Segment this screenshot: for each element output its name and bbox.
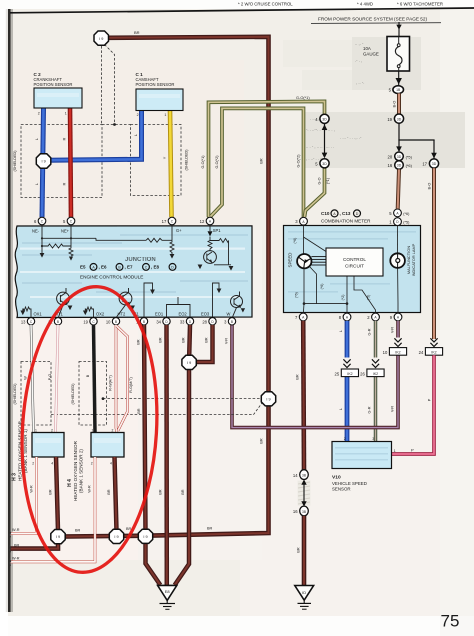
- junction wiring below 19: [398, 123, 400, 151]
- wire BR from EO3 into I9 octagon: [195, 325, 213, 362]
- svg-text:17: 17: [162, 219, 167, 224]
- ECM internal labels top: [32, 228, 221, 234]
- svg-text:75: 75: [441, 612, 460, 631]
- wire P-G from HT1 to H3: [56, 325, 59, 433]
- svg-text:BR: BR: [159, 489, 163, 494]
- ECM internal OX2: [85, 307, 93, 317]
- svg-text:G-O(*2): G-O(*2): [215, 156, 219, 169]
- connector pair link 4-5: [324, 124, 326, 155]
- ground E8 (engine ground): [158, 585, 177, 600]
- svg-text:2: 2: [344, 437, 346, 441]
- svg-text:28: 28: [202, 319, 207, 324]
- malfunction indicator lamp: [390, 253, 405, 268]
- wire W-R from H3 to page edge: [11, 457, 37, 533]
- svg-text:G-R: G-R: [368, 328, 372, 335]
- svg-text:E5: E5: [80, 265, 86, 270]
- svg-text:2: 2: [51, 429, 53, 433]
- connector 5 (1B): [393, 86, 404, 94]
- wire L from C2 pin 2 to ECM NE-: [42, 108, 44, 217]
- connector 19 (3D): [394, 114, 403, 123]
- hatch link speed to control circuit: [311, 257, 326, 265]
- wire B from OX2 to H4: [94, 325, 96, 433]
- svg-text:-. . ..--. . - .. .. . ,: -. . ..--. . - .. .. . ,: [306, 127, 335, 132]
- svg-text:I 9: I 9: [99, 37, 103, 41]
- svg-text:V-R: V-R: [224, 338, 228, 345]
- svg-text:IK2: IK2: [373, 372, 378, 376]
- shield drain dashes to I9: [51, 399, 262, 415]
- svg-text:BR: BR: [137, 408, 141, 413]
- svg-text:BR: BR: [159, 337, 163, 342]
- svg-text:(*5): (*5): [406, 154, 413, 159]
- svg-text:ID: ID: [302, 590, 306, 595]
- wire BR main ground bus: top horizontal from I9, right vertical, bottom bus: [58, 37, 269, 537]
- connector I9 octagon on L wire: [36, 154, 51, 168]
- svg-text:16: 16: [388, 163, 393, 168]
- connector I9 octagon 2 (H4 BR): [109, 529, 123, 543]
- connector 17 (3D): [429, 159, 438, 168]
- ECM internal E1 ground: [144, 283, 153, 317]
- wire B-O fuse column: [397, 93, 401, 114]
- svg-text:, E8: , E8: [151, 265, 160, 270]
- svg-text:BR: BR: [260, 438, 264, 444]
- svg-text:(*6): (*6): [406, 163, 413, 168]
- svg-text:1: 1: [92, 429, 94, 433]
- svg-text:B-O: B-O: [393, 101, 397, 108]
- svg-text:2: 2: [137, 113, 139, 117]
- H4 heated oxygen sensor box: [91, 433, 124, 458]
- connector 20 (3D)(*5): [395, 152, 404, 161]
- shield dashed box OX1: [21, 362, 51, 426]
- svg-text:12: 12: [200, 219, 205, 224]
- connector 26 IK2: [367, 369, 384, 377]
- svg-text:BR: BR: [260, 158, 264, 164]
- svg-text:P: P: [411, 448, 414, 453]
- connector chevrons above IK2 10: [394, 338, 401, 346]
- svg-text:10: 10: [106, 319, 111, 324]
- svg-text:D: D: [356, 212, 359, 216]
- svg-text:GAUGE: GAUGE: [363, 52, 379, 57]
- svg-text:* 6 W/O TACHOMETER: * 6 W/O TACHOMETER: [397, 1, 443, 6]
- svg-text:BR: BR: [49, 489, 53, 494]
- svg-text:34: 34: [156, 319, 161, 324]
- svg-text:W-R: W-R: [12, 556, 20, 560]
- svg-text:G-O: G-O: [318, 177, 322, 184]
- svg-text:I 9: I 9: [187, 361, 191, 365]
- wire P from IK2 24 to V10 pin 1: [392, 355, 434, 454]
- wire BR from H4 to I9: [115, 457, 117, 531]
- svg-text:19: 19: [387, 117, 392, 122]
- svg-text:R: R: [62, 182, 66, 185]
- svg-text:P-G: P-G: [48, 374, 52, 381]
- svg-text:CIRCUIT: CIRCUIT: [345, 264, 364, 269]
- ECM box: [15, 226, 252, 318]
- meter pin 5 (A)(*6): [394, 209, 402, 217]
- svg-text:(SHIELDED): (SHIELDED): [185, 150, 189, 171]
- connector 4 (3D): [320, 114, 329, 123]
- ECM internal HT2 transistor: [119, 292, 132, 305]
- svg-text:1B: 1B: [396, 88, 401, 92]
- svg-text:BR: BR: [137, 339, 141, 344]
- wire W-R from H4 to page edge: [11, 457, 96, 562]
- ECM internal circuit SP1 output: [207, 225, 231, 265]
- svg-text:* 4 4WD: * 4 4WD: [357, 1, 373, 6]
- svg-text:B: B: [57, 320, 59, 324]
- svg-text:(BANK 1 SENSOR 2): (BANK 1 SENSOR 2): [79, 449, 84, 493]
- meter pin 2 (A): [372, 313, 380, 321]
- svg-text:V10: V10: [332, 475, 341, 481]
- svg-text:3D: 3D: [322, 162, 327, 166]
- red circling ellipse annotation: [14, 283, 165, 576]
- scan bleed grey block (fuse area): [283, 37, 465, 168]
- svg-text:14: 14: [293, 473, 298, 478]
- svg-text:(SHIELDED): (SHIELDED): [71, 384, 75, 405]
- svg-text:NE+: NE+: [61, 228, 70, 233]
- svg-text:. ... - . . .,. .-: . ... - . . .,. .-: [340, 135, 362, 140]
- svg-text:NE-: NE-: [32, 228, 40, 233]
- wire R-W (A/T) from HT2 to H4: [116, 325, 117, 433]
- svg-text:W-R: W-R: [29, 485, 33, 493]
- svg-text:* 2 W/O CRUISE CONTROL: * 2 W/O CRUISE CONTROL: [238, 1, 293, 6]
- svg-text:G-O(*1): G-O(*1): [296, 95, 310, 100]
- svg-text:1: 1: [35, 429, 37, 433]
- svg-text:1: 1: [394, 449, 396, 453]
- svg-text:FROM POWER SOURCE SYSTEM (SEE: FROM POWER SOURCE SYSTEM (SEE PAGE 52): [318, 16, 427, 21]
- svg-text:SPEED: SPEED: [287, 253, 292, 268]
- svg-text:(*6): (*6): [293, 238, 297, 244]
- svg-text:10: 10: [383, 350, 388, 355]
- bleed rows inside meter: [288, 231, 416, 293]
- svg-text:IK2: IK2: [431, 351, 436, 355]
- top border line: [10, 8, 474, 13]
- svg-text:L: L: [134, 134, 138, 136]
- wire W from OX1 to H3: [31, 325, 34, 433]
- svg-text:EO1: EO1: [155, 311, 164, 316]
- shield drain dashes from I9 to C2/C1 shield boxes: [102, 45, 115, 125]
- svg-text:R-W(A/T): R-W(A/T): [109, 375, 113, 391]
- svg-text:SENSOR: SENSOR: [332, 486, 351, 491]
- ECM connector names E5-E8: [80, 264, 176, 271]
- svg-text:OX2: OX2: [96, 311, 105, 316]
- svg-text:3B: 3B: [302, 510, 306, 514]
- ECM bottom pins row: [21, 318, 236, 325]
- svg-text:(*5): (*5): [366, 295, 370, 301]
- svg-text:3D: 3D: [432, 162, 437, 166]
- svg-text:L: L: [35, 183, 39, 185]
- meter pin 7 (A): [299, 313, 307, 321]
- wire from power source into fuse: [398, 22, 400, 37]
- variant labels inside meter: [293, 238, 371, 301]
- svg-text:I 9: I 9: [56, 535, 60, 539]
- page edge squiggles: [9, 530, 11, 566]
- svg-text:, C13: , C13: [340, 211, 351, 216]
- svg-text:G-O(*2): G-O(*2): [296, 155, 300, 168]
- svg-text:HEATED OXYGEN SENSOR: HEATED OXYGEN SENSOR: [73, 440, 78, 501]
- svg-text:4: 4: [51, 462, 53, 466]
- svg-text:COMBINATION METER: COMBINATION METER: [321, 218, 371, 223]
- connector 5 (3D): [320, 159, 329, 168]
- wire BR from meter pin 7 to connector 14: [301, 321, 306, 470]
- svg-text:(SHIELDED): (SHIELDED): [13, 151, 17, 172]
- svg-text:POSITION SENSOR: POSITION SENSOR: [34, 82, 73, 87]
- svg-text:BR: BR: [181, 489, 185, 494]
- fuse 10A GAUGE: [387, 37, 410, 72]
- header note: variant footnotes: [238, 1, 443, 6]
- meter pin 1 (D)(*5): [394, 218, 402, 226]
- svg-text:W-R: W-R: [12, 528, 20, 532]
- connector 25 IK2: [341, 369, 358, 377]
- arrow into 20: [396, 146, 402, 152]
- connector chevrons above IK2 24: [430, 338, 437, 346]
- svg-text:V-R: V-R: [390, 406, 394, 413]
- svg-text:Y: Y: [163, 156, 167, 159]
- svg-text:B-O: B-O: [427, 183, 431, 190]
- ECM internal circuit G+: [96, 225, 174, 254]
- svg-text:V-R: V-R: [390, 327, 394, 334]
- svg-text:BR: BR: [107, 489, 111, 494]
- wire BR from connector 16 to ground: [302, 516, 307, 586]
- svg-text:(*6): (*6): [295, 292, 299, 298]
- connector chevrons above IK2 26: [372, 359, 379, 367]
- svg-text:I 9: I 9: [114, 535, 118, 539]
- svg-text:2: 2: [38, 112, 40, 116]
- svg-text:OX1: OX1: [34, 311, 43, 316]
- svg-text:VEHICLE SPEED: VEHICLE SPEED: [332, 481, 367, 486]
- ECM internal circuit NE: [42, 225, 96, 256]
- svg-text:IK2: IK2: [347, 372, 352, 376]
- wire G-R from meter pin 2 to V10 pin 3: [374, 321, 378, 442]
- svg-text:C10: C10: [321, 211, 330, 216]
- svg-text:ENGINE CONTROL MODULE: ENGINE CONTROL MODULE: [80, 275, 143, 280]
- svg-text:2: 2: [32, 462, 34, 466]
- wire G-O(*1) lower from connector 5(3D) to meter pin 3: [305, 168, 325, 217]
- connector 16 on BR: [300, 506, 309, 516]
- svg-text:2: 2: [112, 429, 114, 433]
- book spine shadow: [8, 0, 11, 612]
- svg-text:3: 3: [372, 437, 374, 441]
- svg-text:W-R: W-R: [88, 485, 92, 493]
- svg-text:INDICATOR LAMP: INDICATOR LAMP: [411, 243, 416, 276]
- connector 10 IK2: [389, 348, 406, 356]
- svg-text:2: 2: [91, 462, 93, 466]
- svg-text:W: W: [227, 311, 231, 316]
- svg-text:(*1): (*1): [326, 178, 330, 184]
- svg-text:EO3: EO3: [201, 311, 210, 316]
- svg-text:3D: 3D: [322, 118, 327, 122]
- svg-text:BR: BR: [205, 337, 209, 342]
- svg-text:3D: 3D: [397, 164, 402, 168]
- ECM bottom pin labels: [34, 311, 231, 316]
- svg-text:16: 16: [293, 509, 298, 514]
- connector pair link 14-16 with striped body: [298, 481, 311, 506]
- svg-text:26: 26: [360, 371, 365, 376]
- shield dashed box OX2: [79, 362, 107, 426]
- connector I9 octagon 3 (E1 BR): [138, 529, 152, 543]
- wire Y from C1 pin 1 to ECM G+: [170, 111, 172, 218]
- connector 24 IK2: [425, 348, 442, 356]
- wire BR from EO1 to ground E8: [164, 325, 169, 585]
- svg-text:I 9: I 9: [266, 397, 270, 401]
- wire fuse to connector 1B: [398, 71, 400, 86]
- meter pin 8 (A): [343, 313, 351, 321]
- svg-text:BR: BR: [295, 374, 299, 380]
- svg-text:1: 1: [65, 112, 67, 116]
- ECM internal OX1: [23, 307, 31, 317]
- wire B-O to connector IK2 24: [432, 168, 436, 339]
- wire B-O to combination meter pin 5: [398, 169, 399, 209]
- connector I9 octagon on EO wires: [182, 355, 196, 369]
- svg-text:3B: 3B: [302, 473, 306, 477]
- ECM internal EO3 ground: [213, 283, 220, 317]
- connector I9 octagon 1 (H3 BR): [51, 530, 65, 544]
- svg-text:L: L: [339, 408, 343, 410]
- svg-text:R-G(M/T): R-G(M/T): [129, 377, 133, 393]
- svg-text:HT2: HT2: [118, 311, 126, 316]
- svg-text:24: 24: [419, 350, 424, 355]
- connector 16 (3D)(*6): [395, 161, 404, 170]
- svg-text:BR: BR: [14, 543, 20, 547]
- ECM internal W lamp driver transistor: [231, 296, 243, 308]
- wire G-O(*2) from ECM SP1 direct to meter pin 3: [211, 108, 304, 217]
- svg-text:(*6): (*6): [320, 284, 324, 290]
- ECM internal EO1/EO2 link: [167, 297, 191, 317]
- connector chevrons above IK2 25: [343, 359, 350, 367]
- meter pin 3 (A): [300, 217, 308, 225]
- svg-text:BR: BR: [296, 547, 300, 553]
- ground ID (body ground right): [295, 586, 314, 601]
- svg-text:.. . - , .. .. . ... . .: .. . - , .. .. . ... . .: [306, 144, 334, 149]
- svg-text:R: R: [62, 137, 66, 140]
- wire BR stub from octagon I9 to page edge: [11, 540, 59, 549]
- svg-text:BR: BR: [182, 337, 186, 342]
- shield dashed box C1: [131, 125, 182, 196]
- svg-text:, E6: , E6: [99, 265, 108, 270]
- svg-text:BR: BR: [207, 526, 213, 530]
- svg-text:I 9: I 9: [41, 160, 45, 164]
- svg-text:(*2): (*2): [341, 295, 345, 301]
- ECM pin 6 (C) NE-: [38, 217, 46, 225]
- svg-text:B: B: [231, 320, 233, 324]
- shield dashed box C2: [21, 125, 102, 198]
- svg-text:13: 13: [21, 319, 26, 324]
- control circuit box: [326, 248, 383, 276]
- svg-text:E8: E8: [165, 589, 171, 594]
- svg-text:(SHIELDED): (SHIELDED): [13, 384, 17, 405]
- combination meter box: [284, 226, 421, 313]
- bleed rows inside ECM: [22, 234, 248, 293]
- arrow into 17: [431, 153, 437, 159]
- svg-text:, .. -.: , .. -.: [356, 80, 364, 85]
- shield drain link between boxes: [102, 124, 131, 126]
- wire BR from E1 through I9 to ground E8: [144, 325, 160, 585]
- svg-text:IK2: IK2: [395, 351, 400, 355]
- wire L branch from C1 pin 2: [48, 109, 142, 160]
- ECM internal HT1 transistor: [57, 292, 70, 305]
- svg-text:1: 1: [164, 113, 166, 117]
- ECM pin 17 (C) G+: [168, 217, 176, 225]
- svg-text:G+: G+: [176, 228, 182, 233]
- svg-text:G-O(*1): G-O(*1): [201, 156, 205, 169]
- ECM pin 5 (C) NE+: [67, 217, 75, 225]
- svg-text:CONTROL: CONTROL: [343, 257, 366, 262]
- wire BR from H3 to I9: [56, 457, 58, 531]
- connector 14 on BR: [300, 470, 309, 480]
- svg-text:I 9: I 9: [143, 535, 147, 539]
- svg-text:25: 25: [335, 371, 340, 376]
- ECM pin 12 (A) SP1: [206, 217, 214, 225]
- wire V-R from meter pin 9 down, across to ECM pin W: [232, 321, 398, 428]
- svg-text:G-R: G-R: [368, 406, 372, 413]
- svg-text:B: B: [143, 320, 145, 324]
- connector I9 octagon top left: [94, 31, 109, 45]
- faint bleed-through text rows: [306, 41, 364, 161]
- svg-text:4: 4: [110, 462, 112, 466]
- wire BR from I9 octagon to ground E8: [175, 368, 189, 585]
- top margin: [0, 0, 474, 9]
- connector I9 octagon on main BR vertical: [261, 392, 275, 406]
- svg-text:B: B: [115, 320, 117, 324]
- svg-text:P: P: [427, 398, 431, 401]
- speedometer internal wiring: [303, 226, 398, 317]
- svg-text:L: L: [35, 138, 39, 140]
- svg-text:POSITION SENSOR: POSITION SENSOR: [136, 82, 175, 87]
- svg-text:20: 20: [388, 154, 393, 159]
- svg-text:3D: 3D: [397, 155, 402, 159]
- speedometer gauge SPEED: [297, 254, 311, 268]
- meter caption C10/C13: [321, 210, 371, 223]
- svg-text:17: 17: [422, 162, 427, 167]
- svg-text:.- . ,: .- . ,: [355, 58, 362, 63]
- svg-text:10A: 10A: [363, 46, 371, 51]
- wire BR from EO2 into I9 octagon: [187, 325, 192, 356]
- svg-text:SP1: SP1: [213, 228, 221, 233]
- svg-text:EO2: EO2: [179, 311, 188, 316]
- arrow into fuse: [396, 25, 401, 30]
- svg-text:W: W: [24, 376, 28, 380]
- svg-text:BR: BR: [134, 30, 140, 35]
- svg-text:3D: 3D: [397, 117, 402, 121]
- wire G-O(*1) from ECM SP1 via connector 3D 4/5 to meter: [209, 101, 325, 217]
- H3 heated oxygen sensor box: [32, 433, 64, 458]
- svg-text:BR: BR: [75, 529, 81, 533]
- wire L from meter pin 8 to V10 pin 2: [345, 321, 350, 442]
- svg-text:L: L: [339, 330, 343, 332]
- svg-text:(*6): (*6): [403, 212, 410, 216]
- wire R from C2 pin 1 to ECM NE+: [70, 108, 71, 217]
- wire R-G (M/T) loop from HT2 to H4: [117, 326, 128, 431]
- V10 vehicle speed sensor box: [332, 442, 392, 469]
- svg-text:(*5): (*5): [403, 221, 410, 225]
- svg-text:, E7: , E7: [125, 265, 134, 270]
- svg-text:19: 19: [83, 319, 88, 324]
- svg-text:33: 33: [180, 319, 185, 324]
- meter pin 9 (A): [394, 313, 402, 321]
- svg-text:JUNCTION: JUNCTION: [125, 257, 156, 263]
